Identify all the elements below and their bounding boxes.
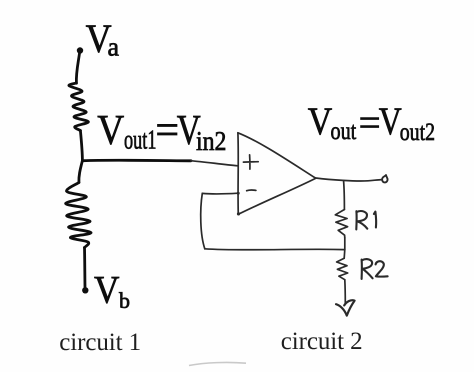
wire node down to lower resistor: [79, 161, 83, 183]
node Vb (terminal dot): [82, 287, 88, 293]
op-amp plus input marking: [243, 155, 258, 169]
node Va (terminal dot): [77, 47, 83, 53]
svg-text:V: V: [379, 100, 402, 143]
op-amp U1 bottom edge: [238, 178, 315, 214]
op-amp minus input marking: [247, 189, 256, 192]
wire resistor to Vb: [83, 248, 86, 288]
svg-text:a: a: [108, 33, 120, 62]
label R1 (handwritten): [355, 211, 357, 229]
wire R1 to junction: [344, 238, 346, 250]
svg-text:out: out: [331, 116, 357, 145]
resistor R2: [337, 258, 348, 280]
wire R2 to ground: [344, 280, 347, 303]
label Vout1 = Vin2: [97, 108, 226, 156]
junction at minus input: [237, 192, 240, 195]
junction at op-amp bottom-left corner: [237, 212, 240, 215]
wire junction to R2: [343, 250, 346, 259]
svg-text:V: V: [97, 108, 124, 154]
svg-text:out2: out2: [400, 117, 435, 146]
resistor (lower divider resistor): [66, 183, 92, 248]
resistor R1: [335, 210, 347, 238]
label Va: [86, 16, 120, 61]
feedback wire left vertical: [201, 193, 205, 248]
wire Va to resistor top: [76, 53, 79, 84]
label Vout = Vout2: [308, 100, 435, 146]
ground (arrow symbol): [336, 300, 355, 315]
resistor (upper divider resistor): [69, 83, 88, 131]
wire to op-amp + input (thin pen): [191, 161, 238, 166]
svg-text:b: b: [119, 288, 130, 313]
svg-text:in2: in2: [196, 126, 227, 156]
svg-text:V: V: [308, 100, 333, 143]
svg-text:V: V: [94, 269, 120, 312]
svg-text:=: =: [359, 102, 381, 145]
faint pencil smudge bottom center: [189, 362, 246, 365]
wire minus input to feedback: [202, 192, 238, 195]
wire resistor to node Vout1: [80, 131, 82, 161]
svg-text:circuit 2: circuit 2: [281, 328, 363, 355]
svg-text:circuit 1: circuit 1: [59, 329, 141, 356]
op-amp U1 top edge: [238, 133, 315, 178]
output terminal (open circle): [382, 175, 387, 182]
wire node to op-amp (thick segment): [83, 159, 191, 162]
feedback wire bottom horizontal: [205, 249, 345, 250]
wire output node down to R1: [343, 181, 346, 210]
op-amp U1 left edge: [237, 133, 239, 215]
label R2 (handwritten): [361, 260, 363, 279]
label Vb: [94, 269, 130, 313]
svg-text:=: =: [155, 108, 179, 154]
output wire: [316, 178, 382, 181]
svg-text:out1: out1: [124, 125, 157, 155]
